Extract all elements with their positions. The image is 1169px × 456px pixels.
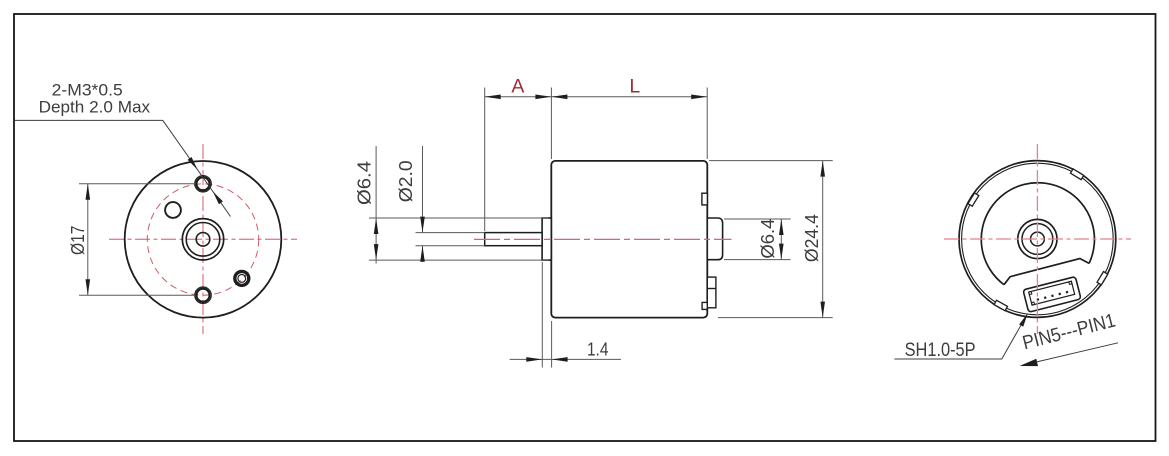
connector pins (1037, 298, 1040, 301)
dim 1.4 arrow right (552, 357, 568, 362)
rim tab upper-left (968, 193, 979, 206)
leader arrowhead at hole (188, 157, 198, 170)
dim L arrow left (551, 95, 567, 100)
svg-text:Depth 2.0 Max: Depth 2.0 Max (39, 99, 151, 117)
rear center boss outer (1018, 219, 1057, 258)
dim Ø2.0 arrow top (420, 217, 425, 233)
rim tab right (1097, 272, 1108, 285)
center boss middle circle (186, 223, 220, 257)
connector outer body (1023, 277, 1081, 313)
dim Ø6.4L dimension line (375, 146, 377, 264)
dim Ø24.4 arrow bottom (820, 302, 825, 318)
rear outer circle (959, 161, 1116, 318)
svg-text:1.4: 1.4 (587, 339, 609, 359)
bottom right connector block (707, 277, 716, 308)
rear inner circle with bottom notch (981, 183, 1094, 285)
svg-text:Ø6.4: Ø6.4 (757, 219, 778, 259)
svg-text:Ø6.4: Ø6.4 (354, 161, 375, 205)
dim Ø2.0 dimension line lower (422, 246, 424, 262)
PIN big arrowhead (1020, 359, 1039, 366)
rear view horizontal centerline (944, 238, 1131, 240)
dim 1.4 extension line right (551, 321, 553, 368)
dim Ø6.4L extension bottom (369, 259, 549, 261)
dim 1.4 dimension line (510, 358, 621, 360)
svg-text:Ø17: Ø17 (67, 226, 88, 256)
dim Ø6.4L arrow top (374, 218, 379, 234)
svg-text:SH1.0-5P: SH1.0-5P (905, 339, 976, 361)
dim 1.4 arrow left (526, 357, 542, 362)
connector latch right (1069, 281, 1072, 284)
svg-text:Ø2.0: Ø2.0 (395, 160, 416, 202)
center boss outer circle (182, 219, 223, 260)
front view vertical centerline (202, 144, 204, 334)
connector key notch (1031, 302, 1034, 305)
dim Ø6.4L arrow bottom (374, 244, 379, 260)
dim A/L dimension line (485, 96, 708, 98)
dim Ø6.4R extension bottom (724, 259, 791, 261)
M3 hole bottom: bold circle (196, 289, 209, 302)
connector block divider (707, 288, 716, 290)
dim Ø24.4 extension top (709, 160, 833, 162)
rear boss (707, 218, 722, 260)
leader SH underline (894, 317, 1025, 359)
motor body (551, 161, 707, 318)
dim Ø2.0 dimension line upper (422, 146, 424, 233)
rear rim circle (962, 163, 1114, 315)
dim A extension line at shaft tip (484, 88, 486, 232)
dim A/L extension line at body front (550, 88, 552, 160)
leader second arrowhead (213, 191, 223, 204)
svg-text:L: L (629, 76, 640, 98)
side view centerline (474, 238, 732, 240)
shaft (485, 233, 542, 246)
dim 1.4 extension line left (541, 262, 543, 368)
rear shaft circle (1031, 232, 1045, 246)
top right tab (702, 193, 708, 205)
small hole lower-right: inner circle (238, 275, 246, 283)
svg-text:Ø24.4: Ø24.4 (801, 214, 822, 262)
dim Ø6.4R dimension line (780, 219, 782, 260)
front view horizontal centerline (109, 238, 297, 240)
dim Ø17 arrow top (86, 184, 91, 200)
dim Ø2.0 extension top (416, 232, 485, 234)
dim Ø6.4R arrow top (779, 219, 784, 235)
dim Ø24.4 extension bottom (718, 317, 833, 319)
shaft hole circle (196, 233, 210, 247)
dim Ø6.4R extension top (724, 218, 791, 220)
rim tab bottom-left (994, 300, 1007, 310)
connector block lower tab (702, 302, 707, 309)
dim A arrow right (535, 95, 551, 100)
connector SH1.0-5P (1023, 277, 1081, 313)
rim tab top-right (1070, 169, 1083, 180)
connector inner socket (1029, 281, 1075, 305)
rear center boss middle (1022, 224, 1053, 255)
rear view vertical centerline (1036, 144, 1038, 334)
dim L extension line at body rear (706, 88, 708, 160)
dim Ø17 arrow bottom (86, 279, 91, 295)
plain hole upper-left (165, 202, 181, 218)
leader underline (14, 120, 230, 216)
leader SH arrowhead (1019, 313, 1028, 327)
dim A arrow left (485, 95, 501, 100)
dim Ø2.0 arrow bottom (420, 246, 425, 262)
M3 hole top: bold circle (196, 177, 209, 190)
dim Ø17 extension line top (79, 183, 195, 185)
svg-text:2-M3*0.5: 2-M3*0.5 (52, 81, 123, 99)
dim Ø6.4L extension top (369, 217, 549, 219)
front mounting boss (542, 218, 551, 260)
dim Ø2.0 extension bottom (416, 245, 485, 247)
svg-text:A: A (511, 76, 524, 98)
front outer circle (125, 161, 282, 318)
dim Ø6.4R arrow bottom (779, 244, 784, 260)
bolt circle (red dashed) (147, 184, 258, 295)
small hole lower-right: bold ring (235, 271, 249, 285)
dim Ø17 dimension line (87, 184, 89, 295)
M3 hole top: thread circle (195, 176, 212, 193)
PIN leader line (1024, 343, 1118, 365)
dim Ø24.4 dimension line (822, 161, 824, 318)
M3 hole bottom: thread circle (195, 287, 212, 304)
dim Ø24.4 arrow top (820, 161, 825, 177)
dim L arrow right (691, 95, 707, 100)
dim Ø17 extension line bottom (79, 294, 195, 296)
connector latch left (1029, 291, 1032, 294)
